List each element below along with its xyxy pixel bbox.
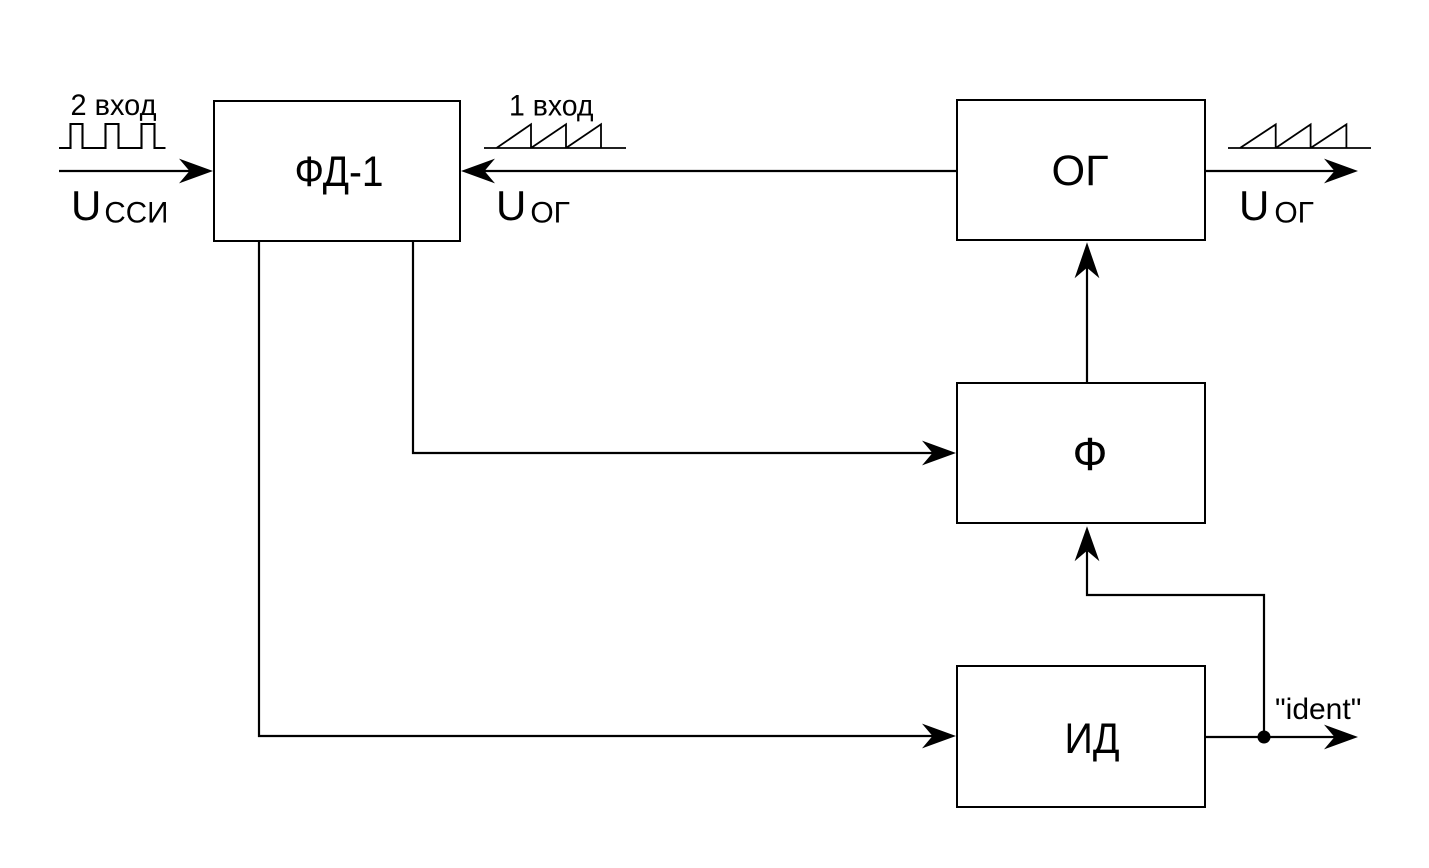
block ОГ	[957, 100, 1205, 240]
arrowhead ИД output	[1324, 725, 1358, 750]
wire input U CCI to ФД-1	[59, 170, 198, 172]
svg-text:ИД: ИД	[1065, 715, 1120, 763]
svg-text:ОГ: ОГ	[1052, 147, 1109, 195]
wire junction to Ф	[1087, 551, 1264, 737]
arrowhead into Ф left	[922, 441, 956, 466]
arrowhead into Ф bottom	[1075, 526, 1100, 561]
arrowhead into ОГ bottom	[1075, 242, 1100, 278]
svg-text:1 вход: 1 вход	[509, 90, 594, 123]
wire ИД output	[1206, 736, 1342, 738]
block Ф	[957, 383, 1205, 523]
svg-text:ФД-1: ФД-1	[295, 148, 384, 196]
junction dot ident	[1258, 731, 1271, 744]
wire ОГ output	[1206, 170, 1342, 172]
svg-text:Ф: Ф	[1073, 428, 1108, 480]
sawtooth waveform (ОГ output)	[1228, 124, 1371, 148]
wire ФД-1 to ИД	[259, 242, 942, 736]
wire ФД-1 to Ф	[413, 242, 942, 453]
block ИД	[957, 666, 1205, 807]
arrowhead ОГ output	[1324, 159, 1358, 184]
wire Ф to ОГ	[1086, 267, 1088, 382]
pulse waveform (2 вход)	[59, 124, 166, 148]
arrowhead into ФД-1 left	[179, 159, 213, 184]
arrowhead into ФД-1 right	[461, 159, 495, 184]
arrowhead into ИД left	[922, 724, 956, 749]
wire ОГ to ФД-1	[478, 170, 957, 172]
svg-text:2 вход: 2 вход	[71, 89, 157, 122]
block ФД-1	[214, 101, 460, 241]
svg-text:"ident": "ident"	[1275, 693, 1361, 726]
sawtooth waveform (1 вход)	[484, 124, 626, 148]
